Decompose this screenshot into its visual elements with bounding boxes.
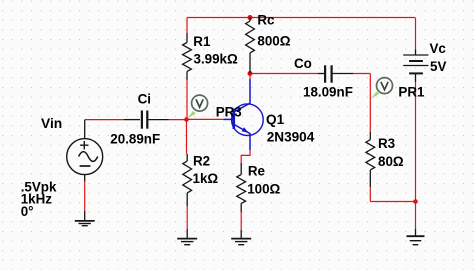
svg-text:1kΩ: 1kΩ	[193, 171, 219, 186]
svg-text:Re: Re	[248, 163, 265, 178]
svg-text:PR1: PR1	[398, 85, 425, 100]
svg-text:R2: R2	[193, 153, 210, 168]
svg-text:PR3: PR3	[216, 104, 242, 119]
svg-text:Vin: Vin	[41, 116, 62, 131]
svg-text:Vc: Vc	[430, 41, 447, 56]
svg-text:5V: 5V	[430, 59, 446, 74]
svg-text:Co: Co	[294, 56, 312, 71]
svg-text:20.89nF: 20.89nF	[110, 131, 160, 146]
svg-text:80Ω: 80Ω	[378, 154, 404, 169]
svg-text:800Ω: 800Ω	[257, 33, 290, 48]
svg-text:100Ω: 100Ω	[247, 182, 280, 197]
svg-text:18.09nF: 18.09nF	[303, 84, 353, 99]
svg-text:0°: 0°	[21, 204, 34, 219]
svg-text:Q1: Q1	[266, 112, 285, 127]
svg-text:R3: R3	[378, 136, 395, 151]
svg-text:3.99kΩ: 3.99kΩ	[194, 51, 239, 66]
svg-text:Ci: Ci	[138, 92, 151, 107]
svg-text:R1: R1	[193, 34, 211, 49]
svg-text:2N3904: 2N3904	[267, 130, 315, 145]
svg-text:Rc: Rc	[257, 13, 275, 28]
